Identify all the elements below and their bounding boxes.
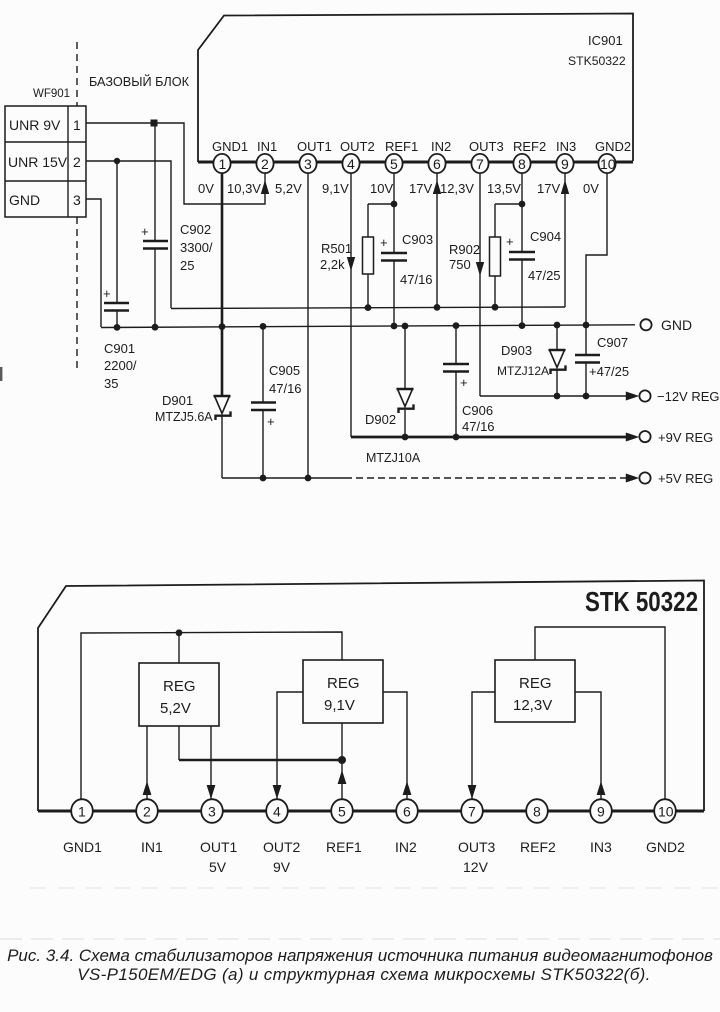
wire pin6 IN2 down to rail A (436, 172, 438, 308)
svg-text:47/16: 47/16 (462, 419, 495, 434)
wire REG 5,2V to pin 2 IN1 (146, 726, 148, 800)
svg-text:GND2: GND2 (595, 139, 631, 154)
capacitor C902 lead bottom (154, 249, 156, 327)
capacitor C906 lead bottom (455, 372, 457, 437)
capacitor C905 lead top (262, 326, 264, 401)
current arrow down on pin4 wire (347, 257, 355, 271)
rail A (unregulated 15V net) (171, 307, 565, 309)
svg-text:9,1V: 9,1V (324, 697, 355, 714)
junction pin10 / ground rail (583, 322, 590, 329)
svg-text:+: + (506, 234, 514, 249)
wire REG 5,2V bottom to REF line (178, 726, 180, 760)
junction D903 / -12V line (554, 393, 561, 400)
regulator block REG 12,3V (495, 660, 575, 722)
junction C905 / +5V line (260, 475, 267, 482)
structural pin 1 circle (71, 799, 93, 823)
zener diode D903 cathode bar (551, 365, 566, 374)
scan streak artifact 2 (30, 887, 720, 889)
svg-text:5: 5 (338, 804, 346, 820)
-12V REG line (480, 395, 627, 397)
svg-text:10: 10 (658, 804, 674, 820)
ground rail B (101, 325, 635, 328)
capacitor C906 plates (443, 363, 469, 366)
wire REF1 node to R501 (368, 203, 394, 205)
arrow up into REG 9,1V from IN2 (403, 781, 412, 795)
capacitor C904 plates (509, 251, 535, 254)
junction R902 / rail A (492, 304, 499, 311)
arrow down to pin 4 (273, 785, 282, 799)
svg-text:9: 9 (561, 156, 569, 172)
wire pin4 OUT2 down to +9V line (350, 172, 352, 437)
capacitor C903 lead top (393, 204, 395, 252)
svg-text:10: 10 (600, 156, 616, 172)
svg-text:47/16: 47/16 (269, 381, 302, 396)
arrow up on REF1 wire (338, 770, 347, 784)
current arrow up into pin 2 (261, 180, 269, 194)
svg-text:8: 8 (518, 156, 526, 172)
arrow down to pin 7 (468, 785, 477, 799)
wire REG 12,3V right to pin 9 IN3 (575, 692, 601, 800)
svg-text:D903: D903 (501, 343, 532, 358)
svg-text:UNR 15V: UNR 15V (8, 154, 68, 170)
node REF2 junction (519, 201, 526, 208)
wire REG 12,3V top to pin 10 GND2 (535, 627, 665, 800)
zener diode D903 triangle (549, 349, 566, 352)
svg-text:REF1: REF1 (326, 839, 362, 855)
svg-text:VS-P150EM/EDG (а) и структурна: VS-P150EM/EDG (а) и структурная схема ми… (77, 965, 650, 984)
structural pin 8 circle (526, 799, 548, 823)
junction C905 / ground rail (260, 323, 267, 330)
svg-text:OUT3: OUT3 (469, 139, 504, 154)
structural pin 7 circle (461, 799, 483, 823)
svg-text:12,3V: 12,3V (513, 697, 552, 714)
junction D902 / +9V line (402, 434, 409, 441)
svg-text:9: 9 (597, 804, 605, 820)
svg-text:GND1: GND1 (212, 139, 248, 154)
junction D902 / ground rail (402, 323, 409, 330)
svg-text:2,2k: 2,2k (320, 257, 345, 272)
svg-text:MTZJ10A: MTZJ10A (366, 451, 421, 465)
svg-text:9V: 9V (273, 859, 291, 875)
svg-text:2: 2 (261, 156, 269, 172)
zener diode D903 lead top (556, 325, 558, 349)
svg-text:C905: C905 (269, 363, 300, 378)
junction REF line / pin 5 (338, 756, 346, 764)
svg-text:0V: 0V (198, 181, 214, 196)
junction top wire / REG 5,2V input (176, 629, 183, 636)
capacitor C904 lead bottom (521, 260, 523, 326)
arrow into +5V terminal (626, 475, 637, 482)
svg-text:6: 6 (403, 804, 411, 820)
connector WF901 row divider 2 (5, 180, 86, 182)
resistor R902 lead top (494, 204, 496, 237)
IC pin 3 circle (299, 154, 316, 173)
D901 lead to +5V line (221, 416, 223, 478)
svg-text:IN2: IN2 (395, 839, 417, 855)
svg-text:STK 50322: STK 50322 (585, 586, 698, 617)
svg-text:1: 1 (219, 156, 227, 172)
structural pin 9 circle (590, 799, 612, 823)
svg-text:47/25: 47/25 (528, 268, 561, 283)
svg-text:UNR 9V: UNR 9V (9, 117, 61, 133)
svg-text:35: 35 (104, 376, 118, 391)
REF1 common line (thick) (179, 759, 342, 762)
svg-text:3300/: 3300/ (180, 240, 213, 255)
svg-text:GND: GND (9, 192, 40, 208)
svg-text:IC901: IC901 (588, 33, 623, 48)
capacitor C905 plates (251, 401, 276, 404)
current arrow up into pin 6 (433, 180, 441, 194)
svg-text:2: 2 (73, 154, 81, 170)
wire pin10 GND2 jog down to ground rail (586, 172, 607, 326)
svg-text:+: + (380, 235, 388, 250)
wire pin1 GND1 down (thick) (221, 172, 224, 395)
resistor R501 body (363, 237, 374, 274)
junction R501 / rail A (365, 304, 372, 311)
structural pin 5 circle (331, 799, 353, 823)
wire REF line down to pin 5 (341, 760, 343, 800)
svg-text:Рис. 3.4. Схема стабилизаторов: Рис. 3.4. Схема стабилизаторов напряжени… (7, 946, 713, 965)
svg-text:+5V REG: +5V REG (658, 471, 713, 486)
junction UNR15V / C901 (114, 158, 120, 164)
svg-text:25: 25 (180, 258, 194, 273)
wire REG 9,1V left to pin 4 OUT2 (277, 692, 303, 800)
svg-text:IN2: IN2 (431, 139, 451, 154)
capacitor C906 lead top (455, 326, 457, 363)
junction C903 / ground rail (391, 323, 398, 330)
svg-text:C904: C904 (530, 229, 561, 244)
+9V REG terminal (639, 431, 650, 442)
svg-text:D901: D901 (162, 393, 193, 408)
svg-text:REG: REG (327, 675, 360, 692)
svg-text:5V: 5V (209, 859, 227, 875)
IC pin 10 circle (598, 154, 615, 173)
svg-text:4: 4 (347, 156, 355, 172)
wire GND pin3 down to ground rail (86, 199, 101, 327)
regulator block REG 5,2V (139, 663, 219, 726)
svg-text:7: 7 (468, 804, 476, 820)
svg-text:12V: 12V (463, 859, 489, 875)
svg-text:7: 7 (476, 156, 484, 172)
IC pin 5 circle (385, 154, 402, 173)
svg-text:5: 5 (390, 156, 398, 172)
svg-text:17V: 17V (537, 181, 560, 196)
IC901 outline (198, 14, 633, 163)
IC pin 6 circle (428, 154, 445, 173)
GND output terminal (640, 319, 651, 330)
svg-text:STK50322: STK50322 (568, 54, 626, 68)
svg-text:4: 4 (273, 804, 281, 820)
svg-text:IN1: IN1 (141, 839, 163, 855)
svg-text:8: 8 (533, 804, 541, 820)
svg-text:OUT2: OUT2 (263, 839, 301, 855)
capacitor C901 plates (104, 302, 129, 305)
junction C907 / -12V line (583, 393, 590, 400)
wire REG 9,1V bottom to REF line (341, 723, 343, 760)
resistor R902 body (490, 237, 501, 276)
svg-text:2: 2 (143, 804, 151, 820)
svg-text:C906: C906 (462, 403, 493, 418)
capacitor C901 lead bottom (116, 311, 118, 327)
svg-text:−12V REG: −12V REG (657, 389, 720, 404)
wire pin7 OUT3 down to -12V line (479, 172, 481, 396)
svg-text:OUT1: OUT1 (200, 839, 238, 855)
arrow up into REG 12,3V from IN3 (597, 781, 606, 795)
structural pin 3 circle (201, 799, 223, 823)
zener diode D902 lead top (404, 326, 406, 388)
zener diode D902 triangle (397, 388, 414, 391)
svg-text:C902: C902 (180, 222, 211, 237)
capacitor C905 lead bottom (262, 411, 264, 478)
svg-text:5,2V: 5,2V (275, 181, 302, 196)
svg-text:REG: REG (519, 675, 552, 692)
connector WF901 row divider 1 (5, 141, 86, 143)
wire pin3 OUT1 down to +5V line (307, 172, 309, 478)
structural pin 4 circle (266, 799, 288, 823)
zener diode D901 cathode bar (216, 411, 231, 420)
svg-text:REF2: REF2 (520, 839, 556, 855)
base-block boundary dashed line lower (76, 217, 78, 372)
D903 lead to -12V line (556, 370, 558, 396)
current arrow up into pin 9 (561, 180, 569, 194)
capacitor C903 plates (381, 252, 407, 255)
arrow up into REG 5,2V from IN1 (143, 781, 152, 795)
arrow down to pin 3 (207, 785, 216, 799)
svg-text:REF1: REF1 (385, 139, 418, 154)
svg-text:+: + (267, 414, 275, 429)
svg-text:WF901: WF901 (33, 88, 70, 100)
junction C904 / ground rail (519, 322, 526, 329)
svg-text:C901: C901 (104, 341, 135, 356)
svg-text:R902: R902 (449, 242, 480, 257)
svg-text:C907: C907 (597, 335, 628, 350)
svg-text:IN3: IN3 (556, 139, 576, 154)
svg-text:C903: C903 (402, 232, 433, 247)
arrow into -12V terminal (626, 393, 637, 400)
node REF1 junction (391, 201, 398, 208)
junction C901 / ground rail (114, 324, 121, 331)
capacitor C904 lead top (521, 204, 523, 251)
svg-text:IN1: IN1 (257, 139, 277, 154)
svg-text:GND: GND (661, 317, 692, 333)
svg-text:9,1V: 9,1V (322, 181, 349, 196)
svg-text:12,3V: 12,3V (440, 181, 474, 196)
capacitor C907 lead bottom (585, 363, 587, 396)
+5V REG line (222, 477, 345, 479)
wire REF2 node to R902 (495, 203, 522, 205)
svg-text:MTZJ12A: MTZJ12A (497, 364, 549, 378)
junction C906 / ground rail (453, 322, 460, 329)
wire pin9 IN3 down to rail A (564, 172, 566, 307)
IC pin 4 circle (342, 154, 359, 173)
svg-text:1: 1 (73, 117, 81, 133)
wire REG 9,1V right to pin 6 IN2 (383, 692, 407, 800)
junction D903 / ground rail (554, 322, 561, 329)
junction pin6 / rail A (434, 304, 441, 311)
svg-text:3: 3 (73, 192, 81, 208)
wire pin5 REF1 down to node (393, 172, 395, 204)
junction on UNR9V wire (square dot) (151, 120, 158, 127)
svg-text:REF2: REF2 (513, 139, 546, 154)
svg-text:10V: 10V (370, 181, 393, 196)
D902 lead to +9V line (404, 410, 406, 437)
arrow into +9V terminal (626, 434, 637, 441)
zener diode D902 cathode bar (399, 404, 414, 413)
IC901 bottom edge (thick) (198, 161, 633, 164)
zener diode D901 triangle (214, 395, 231, 398)
wire UNR 9V to IN1 (86, 123, 265, 204)
svg-text:+47/25: +47/25 (589, 364, 629, 379)
+5V REG terminal (639, 472, 650, 483)
svg-text:IN3: IN3 (590, 839, 612, 855)
svg-text:750: 750 (449, 257, 471, 272)
svg-text:1: 1 (78, 804, 86, 820)
svg-text:БАЗОВЫЙ БЛОК: БАЗОВЫЙ БЛОК (89, 74, 190, 89)
current arrow down on pin7 wire (476, 262, 484, 276)
left margin scan mark (0, 367, 2, 381)
capacitor C907 lead top (585, 325, 587, 354)
connector WF901 pin-column divider (67, 106, 69, 217)
svg-text:+9V REG: +9V REG (658, 430, 713, 445)
svg-text:MTZJ5.6A: MTZJ5.6A (155, 410, 213, 424)
IC pin 7 circle (471, 154, 488, 173)
svg-text:10,3V: 10,3V (227, 181, 261, 196)
svg-text:2200/: 2200/ (104, 358, 137, 373)
wire junction down to REG 5,2V (178, 633, 180, 663)
svg-text:R501: R501 (321, 241, 352, 256)
svg-text:+: + (460, 375, 468, 390)
wire REG 5,2V to pin 3 OUT1 (210, 726, 212, 800)
svg-text:5,2V: 5,2V (160, 700, 191, 717)
svg-text:GND1: GND1 (63, 839, 102, 855)
svg-text:3: 3 (208, 804, 216, 820)
-12V REG terminal (639, 390, 650, 401)
wire pin8 REF2 down to node (521, 172, 523, 204)
svg-text:GND2: GND2 (646, 839, 685, 855)
IC pin 1 circle (213, 154, 230, 173)
junction pin1 wire / ground rail (219, 323, 226, 330)
wire UNR 15V to rail A (86, 161, 171, 308)
svg-text:OUT3: OUT3 (458, 839, 496, 855)
capacitor C902 plates (143, 240, 168, 243)
resistor R501 lead top (367, 204, 369, 237)
capacitor C907 plates (575, 354, 600, 357)
IC pin 2 circle (256, 154, 273, 173)
svg-text:3: 3 (304, 156, 312, 172)
svg-text:+: + (103, 286, 111, 301)
svg-text:+: + (141, 224, 149, 239)
svg-text:17V: 17V (409, 181, 432, 196)
svg-text:D902: D902 (365, 412, 396, 427)
scan streak artifact 1 (0, 938, 720, 940)
structural pin 2 circle (136, 799, 158, 823)
IC pin 9 circle (556, 154, 573, 173)
svg-text:0V: 0V (583, 181, 599, 196)
svg-text:13,5V: 13,5V (487, 181, 521, 196)
capacitor C903 lead bottom (393, 261, 395, 326)
capacitor C901 lead top (116, 161, 118, 302)
junction C902 / ground rail (152, 324, 159, 331)
svg-text:REG: REG (163, 678, 196, 695)
junction pin3 wire / +5V line (305, 475, 312, 482)
IC pin 8 circle (513, 154, 530, 173)
svg-text:OUT1: OUT1 (297, 139, 332, 154)
svg-text:OUT2: OUT2 (340, 139, 375, 154)
resistor R902 lead bottom (494, 276, 496, 308)
wire REG 12,3V left to pin 7 OUT3 (472, 692, 495, 800)
structural diagram bottom bus (thick) (38, 810, 704, 813)
regulator block REG 9,1V (303, 660, 383, 723)
+9V REG line (thick) (351, 436, 627, 439)
svg-text:6: 6 (433, 156, 441, 172)
junction C906 / +9V line (453, 434, 460, 441)
top inner wire from GND1 to regulators (81, 632, 342, 800)
structural pin 6 circle (396, 799, 418, 823)
resistor R501 lead bottom (367, 274, 369, 308)
svg-text:47/16: 47/16 (400, 272, 433, 287)
connector WF901 outer box (5, 106, 86, 217)
capacitor C902 lead top (154, 123, 156, 240)
structural diagram IC outline (38, 581, 704, 812)
base-block boundary dashed line upper (76, 42, 78, 106)
structural pin 10 circle (654, 799, 676, 823)
